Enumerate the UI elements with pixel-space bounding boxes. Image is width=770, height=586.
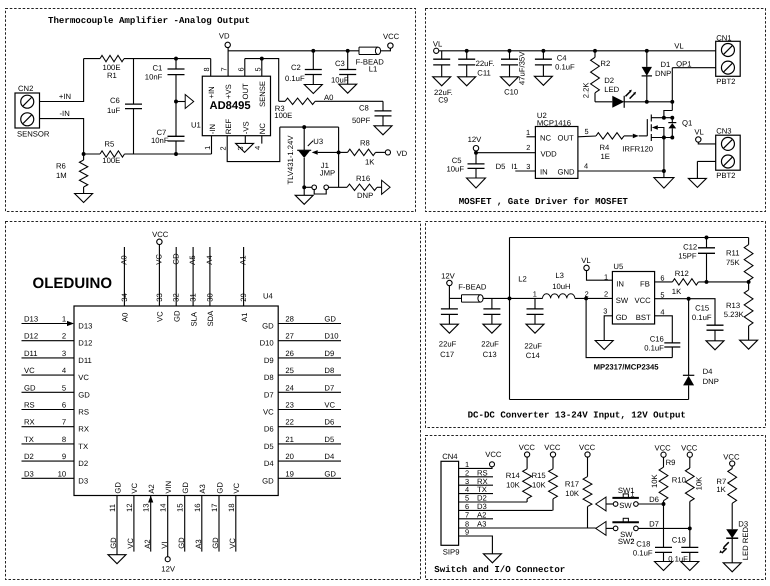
svg-text:TLV431-1.24V: TLV431-1.24V	[286, 135, 295, 185]
svg-text:NC: NC	[258, 123, 267, 135]
wire C15 bottom lead	[714, 330, 716, 341]
wire pin 23 (VC)	[278, 409, 341, 411]
wire REF node top	[280, 126, 339, 128]
svg-text:17: 17	[210, 503, 219, 512]
wire R4 to gate arrow	[624, 135, 633, 137]
wire node to R8	[339, 151, 348, 153]
transistor Q1 body arrow	[652, 125, 658, 130]
wire C17 top lead	[448, 298, 450, 309]
svg-text:D7: D7	[264, 390, 274, 399]
svg-text:C6: C6	[110, 96, 120, 105]
pin 6 stub	[244, 59, 246, 77]
IC U4 body	[74, 306, 278, 496]
ground below C19	[681, 562, 699, 571]
svg-text:10nF: 10nF	[145, 73, 163, 82]
wire C16 bottom lead	[671, 347, 673, 358]
resistor R15	[552, 457, 554, 469]
junction dot LED/drain node	[670, 100, 674, 104]
terminal VCC at R17	[585, 452, 590, 457]
svg-text:VL: VL	[433, 39, 443, 48]
svg-text:GD: GD	[113, 482, 122, 494]
svg-text:1: 1	[526, 128, 530, 137]
connector CN4 body	[441, 461, 459, 545]
svg-text:-IN: -IN	[60, 109, 70, 118]
svg-text:D8: D8	[324, 366, 334, 375]
capacitor C17	[441, 309, 458, 315]
wire U3 cathode lead	[303, 127, 305, 150]
svg-text:C1: C1	[153, 64, 163, 73]
wire D1 bottom lead	[646, 76, 648, 102]
wire CN4 pin 4	[459, 493, 493, 495]
svg-text:D13: D13	[24, 315, 38, 324]
terminal VCC at R7	[730, 461, 735, 466]
svg-text:VC: VC	[324, 401, 335, 410]
svg-text:FB: FB	[640, 279, 650, 288]
svg-text:A4: A4	[205, 255, 214, 265]
svg-text:12V: 12V	[161, 564, 176, 573]
svg-text:A2: A2	[143, 539, 152, 548]
svg-text:SENSE: SENSE	[258, 81, 267, 107]
svg-text:Switch and I/O Connector: Switch and I/O Connector	[434, 564, 565, 575]
svg-text:RS: RS	[24, 401, 35, 410]
wire C12 bottom lead	[706, 253, 708, 282]
svg-text:DNP: DNP	[655, 69, 671, 78]
wire VL to IN pin	[587, 271, 613, 281]
wire pin 11 (GD) to ground	[116, 496, 118, 555]
wire to R3	[279, 100, 285, 102]
svg-text:TX: TX	[24, 435, 34, 444]
wire CN4 pin 7	[459, 518, 493, 520]
junction dot D6 node	[662, 502, 666, 506]
wire pin 22 (D6)	[278, 426, 341, 428]
wire pin 8 (TX)	[22, 443, 75, 445]
pin 1 arrowhead	[67, 321, 74, 326]
connector CN3	[716, 135, 741, 170]
wire pin 30 (A4)	[209, 247, 211, 306]
diode D4	[683, 374, 694, 376]
wire R8 to VD terminal	[376, 151, 386, 153]
svg-text:PBT2: PBT2	[716, 77, 735, 86]
wire VL rail	[439, 50, 716, 52]
svg-text:D10: D10	[260, 339, 274, 348]
svg-text:9: 9	[62, 452, 66, 461]
svg-text:VCC: VCC	[655, 444, 672, 453]
svg-text:5.23K: 5.23K	[724, 310, 745, 319]
capacitor C8	[375, 111, 392, 116]
svg-text:R8: R8	[360, 139, 370, 148]
wire C8 bottom lead	[382, 116, 384, 126]
svg-text:U1: U1	[191, 121, 201, 130]
wire C4 top lead	[542, 51, 544, 59]
svg-text:C14: C14	[526, 351, 541, 360]
svg-text:2: 2	[219, 146, 228, 150]
svg-text:C4: C4	[557, 53, 568, 62]
ground below C4	[534, 76, 552, 85]
terminal VD above pin 7	[225, 42, 230, 47]
svg-text:16: 16	[193, 503, 202, 512]
wire loop top	[510, 237, 749, 239]
wire C6 bottom lead	[133, 109, 135, 154]
svg-text:D5: D5	[324, 435, 334, 444]
ground below CN3	[688, 178, 706, 187]
panel border: MOSFET gate driver section	[426, 9, 766, 212]
ground below Q1	[663, 171, 665, 178]
svg-text:VC: VC	[126, 538, 135, 549]
svg-text:C3: C3	[335, 59, 345, 68]
junction dot source 2	[670, 136, 674, 140]
terminal 12V input	[447, 280, 452, 285]
svg-text:0.1uF: 0.1uF	[285, 74, 305, 83]
svg-text:VCC: VCC	[485, 450, 502, 459]
junction dot U3 top	[302, 125, 306, 129]
wire F-BEAD to VCC	[381, 48, 391, 51]
svg-text:2: 2	[604, 289, 608, 298]
op-amp U1 body	[202, 76, 270, 136]
capacitor C13	[483, 309, 500, 315]
svg-text:SENSOR: SENSOR	[17, 130, 50, 139]
svg-text:100E: 100E	[102, 156, 120, 165]
U3 reference arrow	[312, 150, 318, 155]
junction dot D7 node	[688, 526, 692, 530]
wire C2 bottom lead	[312, 75, 314, 85]
gate arrowhead	[633, 134, 639, 139]
svg-text:C11: C11	[477, 69, 491, 78]
wire flag to SW1	[606, 503, 613, 505]
wire gate from R4	[639, 135, 648, 137]
svg-text:SW: SW	[619, 501, 632, 510]
svg-text:C15: C15	[695, 304, 709, 313]
wire OP1 to CN1	[672, 67, 715, 69]
svg-text:7: 7	[465, 510, 469, 519]
svg-text:22uF: 22uF	[524, 341, 542, 350]
svg-text:DNP: DNP	[357, 191, 373, 200]
resistor R16	[347, 184, 377, 190]
wire C7 top lead	[175, 102, 177, 137]
svg-text:RX: RX	[24, 418, 35, 427]
svg-text:A1: A1	[240, 313, 249, 322]
ground below pin 11	[108, 555, 126, 564]
svg-text:L2: L2	[518, 274, 527, 283]
svg-text:1: 1	[203, 146, 212, 150]
wire 12V to rail	[448, 286, 450, 299]
svg-text:OUT: OUT	[558, 133, 575, 142]
wire C4 bottom lead	[542, 65, 544, 76]
svg-text:JMP: JMP	[320, 169, 335, 178]
junction dot C4	[541, 49, 545, 53]
svg-text:VC: VC	[232, 482, 241, 493]
svg-text:30: 30	[205, 293, 214, 302]
capacitor C12	[698, 248, 715, 254]
svg-text:R4: R4	[600, 143, 611, 152]
ground below C15	[706, 341, 724, 350]
svg-text:31: 31	[189, 293, 198, 302]
wire pin 24 (D7)	[278, 391, 341, 393]
svg-text:-VS: -VS	[241, 121, 250, 134]
svg-text:SLA: SLA	[189, 311, 198, 326]
junction dot C10	[508, 49, 512, 53]
capacitor C10	[501, 59, 518, 65]
svg-text:10uF: 10uF	[331, 76, 349, 85]
junction dot D1 bottom	[645, 100, 649, 104]
svg-text:D4: D4	[703, 367, 714, 376]
svg-text:24: 24	[285, 383, 294, 392]
svg-text:D12: D12	[78, 339, 92, 348]
svg-text:A0: A0	[120, 255, 129, 264]
svg-text:D3: D3	[78, 476, 88, 485]
svg-text:C16: C16	[650, 335, 664, 344]
svg-text:D11: D11	[24, 349, 38, 358]
regulator U5 body	[612, 272, 654, 325]
panel border: OLEDUINO section	[6, 222, 421, 580]
wire C19 top lead	[689, 528, 691, 547]
svg-text:LED: LED	[604, 85, 619, 94]
svg-text:REF: REF	[224, 119, 233, 135]
wire CN4 pin 2	[459, 476, 493, 478]
switch SW1 actuator	[612, 497, 639, 499]
wire SW to BST loop	[586, 298, 672, 357]
capacitor C5	[468, 164, 485, 169]
svg-text:1uF: 1uF	[107, 106, 121, 115]
wire D1 top lead	[646, 51, 648, 67]
svg-text:A0: A0	[324, 93, 333, 102]
wire CN4 pin 9 to ground	[459, 536, 493, 554]
panel border: thermocouple amplifier section	[6, 9, 416, 212]
wire vertical R8/R16 node	[338, 127, 340, 187]
wire pin 25 (D8)	[278, 374, 341, 376]
LED D2	[612, 96, 624, 108]
svg-text:U4: U4	[263, 291, 274, 300]
svg-text:A5: A5	[188, 255, 197, 264]
wire R6 top lead	[83, 154, 85, 160]
svg-text:10K: 10K	[565, 489, 580, 498]
svg-text:R1: R1	[107, 71, 117, 80]
svg-text:VCC: VCC	[544, 443, 561, 452]
capacitor C11	[458, 59, 475, 65]
svg-text:LED RED: LED RED	[741, 527, 750, 561]
resistor R2	[591, 57, 600, 92]
svg-text:+IN: +IN	[59, 92, 71, 101]
svg-text:C13: C13	[483, 350, 497, 359]
svg-text:CN1: CN1	[716, 33, 731, 42]
net flag SW1	[596, 497, 606, 511]
svg-text:3: 3	[603, 307, 607, 316]
shunt regulator U3 TLV431	[297, 149, 311, 151]
ground below pin 3	[236, 143, 254, 152]
wire CN4 pin 5 (D2) to R14	[459, 501, 527, 503]
svg-text:10K: 10K	[650, 473, 659, 488]
junction dot C12 bottom	[705, 280, 709, 284]
svg-text:1: 1	[62, 315, 66, 324]
svg-text:D1: D1	[661, 60, 671, 69]
wire to net flag	[176, 101, 185, 103]
svg-text:VCC: VCC	[635, 296, 652, 305]
svg-text:Thermocouple Amplifier -Analog: Thermocouple Amplifier -Analog Output	[48, 15, 250, 26]
svg-text:DC-DC Converter 13-24V Input,: DC-DC Converter 13-24V Input, 12V Output	[468, 409, 686, 420]
svg-text:10uF: 10uF	[447, 164, 465, 173]
svg-text:VCC: VCC	[383, 32, 400, 41]
svg-text:R14: R14	[506, 471, 521, 480]
resistor R8	[348, 149, 376, 155]
ground below C13	[483, 324, 501, 333]
svg-text:R10: R10	[672, 475, 686, 484]
svg-text:L3: L3	[555, 271, 564, 280]
resistor R12	[672, 279, 698, 285]
svg-text:5: 5	[253, 67, 262, 71]
wire OUT pin to R4	[578, 135, 596, 138]
svg-text:IRFR120: IRFR120	[622, 145, 653, 154]
wire C3 bottom lead	[347, 75, 349, 85]
wire -IN from CN2 down to R5 rail	[40, 119, 84, 154]
svg-text:D2: D2	[78, 459, 88, 468]
wire pin 27 (D10)	[278, 340, 341, 342]
wire D2 to D1 node	[624, 101, 647, 103]
pin 5 stub	[261, 59, 263, 77]
wire pin 5 (GD)	[22, 391, 75, 393]
svg-text:2: 2	[62, 332, 66, 341]
svg-text:3: 3	[62, 349, 66, 358]
svg-text:29: 29	[239, 293, 248, 302]
wire CN4 pin 1 to VCC	[459, 467, 492, 469]
diode D1	[642, 67, 652, 76]
svg-text:4: 4	[660, 307, 664, 316]
svg-text:7: 7	[62, 418, 66, 427]
svg-text:33: 33	[155, 293, 164, 302]
svg-text:GD: GD	[215, 482, 224, 494]
junction dot R2 top	[593, 49, 597, 53]
svg-text:C12: C12	[683, 242, 697, 251]
svg-text:2: 2	[631, 539, 635, 546]
svg-text:C9: C9	[438, 96, 448, 105]
svg-text:A0: A0	[121, 313, 130, 322]
svg-text:I1: I1	[511, 162, 517, 171]
svg-text:VC: VC	[155, 254, 164, 265]
ground below C5	[467, 178, 486, 188]
svg-text:MOSFET , Gate Driver for MOSFE: MOSFET , Gate Driver for MOSFET	[459, 196, 629, 207]
wire C13 bottom lead	[491, 314, 493, 324]
svg-text:1K: 1K	[672, 287, 682, 296]
svg-text:0.1uF: 0.1uF	[692, 313, 712, 322]
wire F-BEAD to L3	[483, 297, 542, 299]
svg-text:D3: D3	[24, 469, 34, 478]
capacitor C14	[527, 309, 544, 315]
svg-text:L1: L1	[369, 65, 378, 74]
svg-text:D4: D4	[264, 459, 275, 468]
wire C5 bottom lead	[475, 168, 477, 178]
svg-text:VL: VL	[674, 41, 684, 50]
wire C8 top lead	[382, 101, 384, 111]
ground below C17	[440, 324, 458, 333]
resistor R1	[100, 55, 124, 61]
svg-text:SIP9: SIP9	[443, 548, 460, 557]
svg-text:TX: TX	[78, 442, 88, 451]
wire R3 to C8	[315, 100, 383, 102]
wire C19 bottom lead	[689, 552, 691, 561]
wire rail to R1	[84, 58, 100, 60]
svg-text:PBT2: PBT2	[716, 171, 735, 180]
svg-text:D11: D11	[78, 356, 92, 365]
svg-text:RX: RX	[78, 425, 89, 434]
wire D3 to ground	[731, 538, 733, 563]
svg-text:AD8495: AD8495	[210, 100, 251, 112]
wire pin 18 (VC)	[235, 496, 237, 552]
switch SW1 contacts	[613, 502, 618, 507]
wire C3 top lead	[347, 51, 349, 70]
wire CN4 pin 6 (D3) to R15	[459, 509, 553, 511]
transistor Q1 source stub	[651, 137, 672, 139]
ground below C10	[501, 77, 519, 86]
svg-text:10uH: 10uH	[552, 282, 570, 291]
svg-text:100E: 100E	[274, 111, 292, 120]
ground below C3	[339, 84, 357, 93]
junction dot R8 node	[337, 150, 341, 154]
resistor R5	[100, 151, 125, 157]
svg-text:VC: VC	[228, 538, 237, 549]
wire pin 14 (VIN) to 12V	[167, 496, 169, 557]
svg-text:GD: GD	[181, 482, 190, 494]
pin 13 arrowhead	[148, 496, 153, 503]
junction dot C3 top	[346, 49, 350, 53]
svg-text:VD: VD	[219, 32, 230, 41]
svg-text:IN: IN	[540, 167, 548, 176]
ground below C14	[526, 324, 544, 333]
svg-text:GD: GD	[177, 537, 186, 549]
svg-text:D6: D6	[324, 418, 334, 427]
wire pin 12 (VC)	[133, 496, 135, 552]
capacitor C16	[664, 343, 680, 347]
wire R1 to U1 pin 8	[124, 58, 211, 60]
wire pin 10 (D3)	[22, 477, 75, 479]
wire BST pin to C16	[655, 316, 673, 343]
svg-text:2: 2	[526, 143, 530, 152]
wire C11 top lead	[466, 51, 468, 59]
ground below C11	[458, 77, 476, 86]
wire C14 top lead	[534, 298, 536, 309]
resistor R7	[731, 466, 733, 468]
svg-text:1: 1	[604, 273, 608, 282]
svg-text:OP1: OP1	[676, 60, 691, 69]
resistor R3	[285, 98, 315, 104]
terminal 12V bottom	[165, 557, 170, 562]
svg-text:C19: C19	[672, 536, 686, 545]
ferrite bead L2	[462, 295, 481, 302]
ground below U3	[303, 187, 305, 195]
capacitor C6	[125, 104, 142, 109]
terminal VL at CN3	[696, 137, 701, 142]
svg-text:R13: R13	[726, 301, 740, 310]
LED D2 light arrows	[626, 91, 635, 99]
Q1 body diode	[671, 118, 673, 123]
wire pin 9 (D2)	[22, 460, 75, 462]
ground below U5 pin 3	[595, 341, 613, 350]
svg-text:6: 6	[236, 67, 245, 71]
svg-text:21: 21	[285, 435, 294, 444]
svg-text:D9: D9	[264, 356, 274, 365]
terminal VCC	[388, 43, 393, 48]
wire C6 top lead	[133, 59, 135, 105]
wire pin 26 (D9)	[278, 357, 341, 359]
svg-text:VCC: VCC	[681, 444, 698, 453]
wire CN4 pin 3	[459, 484, 493, 486]
wire R16 to flag	[377, 186, 382, 188]
svg-text:VC: VC	[130, 482, 139, 493]
svg-text:VCC: VCC	[152, 230, 169, 239]
svg-text:A3: A3	[477, 520, 486, 529]
net flag at R16	[382, 180, 391, 194]
junction dot at C1 top	[174, 57, 178, 61]
wire rail to F-BEAD	[449, 297, 461, 299]
junction dot C2 top	[311, 49, 315, 53]
svg-text:19: 19	[285, 469, 294, 478]
